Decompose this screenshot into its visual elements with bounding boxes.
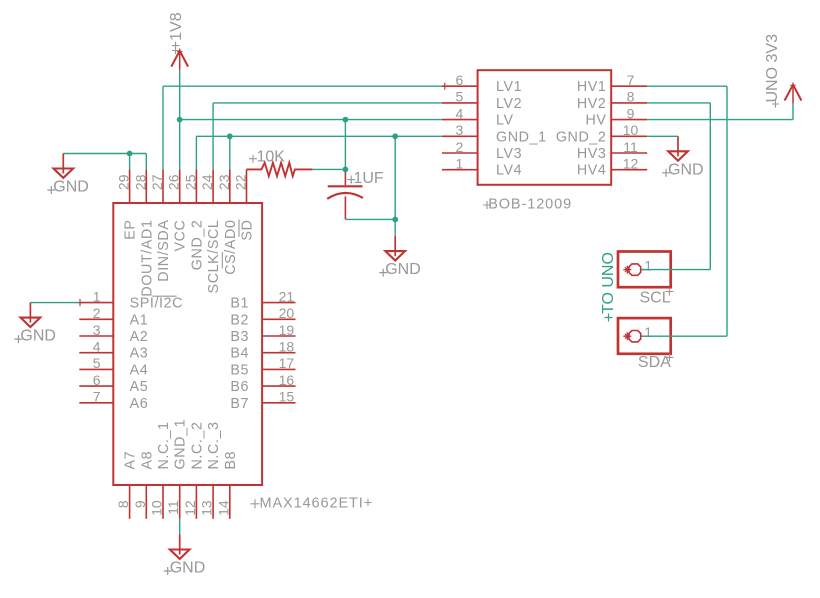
ground GND bob [662,136,704,178]
svg-text:1: 1 [456,156,464,172]
svg-text:SDA: SDA [638,354,671,371]
svg-text:4: 4 [93,339,101,355]
svg-text:GND: GND [53,179,89,196]
svg-text:GND: GND [20,328,56,345]
wire CS/AD0 vertical pin23 [229,136,231,169]
svg-text:11: 11 [623,139,638,155]
wire pin29 drop [129,154,131,170]
supply +1V8 [168,12,188,70]
svg-text:A5: A5 [130,379,149,395]
svg-text:8: 8 [115,500,131,508]
svg-text:UNO 3V3: UNO 3V3 [764,34,781,103]
U2 pin 1 LV4 [442,156,522,179]
svg-text:DOUT/AD1: DOUT/AD1 [139,220,155,297]
ground GND top-left [47,154,89,196]
svg-text:HV3: HV3 [577,146,607,162]
svg-text:11: 11 [165,500,181,515]
U1 pin 11 GND_1 [165,419,189,519]
svg-text:N.C._2: N.C._2 [189,421,205,469]
node junction pin29-gnd [127,151,133,157]
U1 pin 7 A6 [79,389,148,412]
svg-text:VCC: VCC [173,220,189,252]
U1 pin 5 A4 [79,355,148,378]
svg-text:B2: B2 [230,312,249,328]
svg-text:5: 5 [456,89,464,105]
svg-text:.1UF: .1UF [349,170,384,187]
svg-text:5: 5 [93,355,101,371]
svg-text:B1: B1 [230,296,249,312]
svg-text:19: 19 [279,322,295,338]
U2 pin 9 HV [585,105,647,128]
wire HV2 vertical to SCL [709,103,711,270]
svg-text:A1: A1 [130,312,149,328]
wire pullup vertical [344,120,346,170]
svg-text:20: 20 [279,305,295,321]
svg-text:10: 10 [623,122,639,138]
svg-text:SCLK/SCL: SCLK/SCL [206,220,222,294]
wire GND_2 vertical pin25 [195,136,197,169]
wire pin28 drop [145,154,147,170]
U1 pin 4 A3 [79,339,148,362]
ground GND cap [379,236,421,278]
wire SCLK/SCL vertical pin24 [212,103,214,169]
connector JP2 SDA [618,318,673,371]
node junction cap top [343,167,349,173]
wire UNO3V3 vertical [792,104,794,120]
svg-text:14: 14 [215,500,231,516]
svg-text:9: 9 [627,105,635,121]
svg-text:12: 12 [623,156,639,172]
svg-text:1: 1 [644,258,652,274]
wire 1V8 to LV [180,119,442,121]
svg-text:9: 9 [132,500,148,508]
U1 pin 8 A7 [115,451,139,519]
svg-text:6: 6 [93,372,101,388]
ground GND pin1 [14,303,56,345]
U2 origin cross [441,83,448,90]
U1 value label MAX14662ETI+ [251,495,374,511]
U2 pin 6 LV1 [442,72,522,95]
U1 pin 15 B7 [230,389,295,412]
node junction cap gnd [392,217,398,223]
svg-text:A8: A8 [139,451,155,470]
svg-text:B5: B5 [230,362,249,378]
U1 pin 1 SPI/I2C [79,288,183,311]
wire DIN/SDA to LV1 [163,85,442,87]
svg-text:7: 7 [93,389,101,405]
svg-text:3: 3 [456,122,464,138]
svg-text:29: 29 [116,174,132,190]
svg-text:6: 6 [456,72,464,88]
svg-text:21: 21 [279,288,295,304]
svg-text:SPI/I2C: SPI/I2C [130,296,183,312]
U1 pin 29 EP [116,169,139,239]
svg-text:HV2: HV2 [577,96,607,112]
svg-text:A3: A3 [130,346,149,362]
wire SCL pad horizontal [641,269,710,271]
U2 pin 8 HV2 [577,89,647,112]
svg-text:HV: HV [585,113,606,129]
ground GND bottom [164,535,206,577]
svg-text:MAX14662ETI+: MAX14662ETI+ [260,495,374,511]
svg-text:15: 15 [279,389,295,405]
U2 pin 11 HV3 [577,139,647,162]
supply UNO 3V3 [764,34,801,108]
svg-text:A6: A6 [130,396,149,412]
U2 value label BOB-12009 [483,197,572,213]
U1 pin 2 A1 [79,305,148,328]
U1 pin 10 N.C._1 [149,421,173,518]
svg-text:24: 24 [199,174,215,190]
U1 pin 16 B6 [230,372,295,395]
U2 pin 10 GND_2 [556,122,647,145]
svg-text:B8: B8 [223,451,239,470]
svg-text:27: 27 [149,174,165,190]
svg-text:GND: GND [385,261,421,278]
svg-text:17: 17 [279,355,295,371]
svg-text:LV1: LV1 [496,79,522,95]
svg-text:18: 18 [279,339,295,355]
U1 pin 6 A5 [79,372,148,395]
svg-text:B3: B3 [230,329,249,345]
U1 pin 26 VCC [166,169,189,251]
svg-text:10: 10 [149,500,165,516]
wire gnd branch vertical [394,136,396,236]
U1 pin 27 DIN/SDA [149,169,172,281]
svg-text:LV2: LV2 [496,96,522,112]
wire GND row to GND_1 [196,135,442,137]
level-shifter U2 BOB-12009 body [478,70,612,185]
svg-text:GND_2: GND_2 [189,220,205,271]
svg-text:N.C._3: N.C._3 [206,421,222,469]
svg-text:12: 12 [182,500,198,516]
svg-text:HV4: HV4 [577,163,607,179]
wire 1V8 vertical pin26 [179,70,181,169]
net label TO UNO [600,252,617,321]
svg-text:25: 25 [182,174,198,190]
svg-text:2: 2 [456,139,464,155]
wire cap bottom horizontal [345,218,395,220]
wire pin1 to GND [30,302,79,304]
wire HV to UNO3V3 [647,119,793,121]
svg-text:BOB-12009: BOB-12009 [488,197,572,213]
U1 pin 28 DOUT/AD1 [132,169,155,296]
svg-text:GND_1: GND_1 [496,129,547,145]
U1 origin cross [76,299,83,306]
node junction gnd-cap branch [392,133,398,139]
wire HV1 horizontal [647,85,727,87]
connector JP1 SCL [618,252,673,307]
U2 pin 12 HV4 [577,156,647,179]
U1 pin 24 SCLK/SCL [199,169,222,293]
svg-text:7: 7 [627,72,635,88]
svg-text:N.C._1: N.C._1 [156,421,172,469]
svg-text:HV1: HV1 [577,79,607,95]
svg-text:13: 13 [199,500,215,516]
U1 pin 25 GND_2 [182,169,205,270]
node junction 1V8 pullup [343,117,349,123]
svg-text:EP: EP [123,220,139,240]
svg-text:10K: 10K [257,149,286,166]
svg-text:CS/AD0: CS/AD0 [223,219,239,274]
svg-text:TO UNO: TO UNO [600,252,617,314]
svg-text:GND: GND [170,560,206,577]
U1 pin 13 N.C._3 [199,421,223,518]
U1 pin 20 B2 [230,305,295,328]
node junction CS/AD0 gnd [227,133,233,139]
svg-text:22: 22 [233,174,249,190]
svg-text:GND_2: GND_2 [556,129,607,145]
U2 pin 5 LV2 [442,89,522,112]
svg-text:8: 8 [627,89,635,105]
svg-text:16: 16 [279,372,295,388]
svg-text:SCL: SCL [640,289,671,306]
wire DIN/SDA vertical pin27 [162,86,164,169]
svg-text:B6: B6 [230,379,249,395]
U1 pin 23 CS/AD0 [216,169,239,274]
wire pin11 to GND [179,519,181,535]
U1 pin 12 N.C._2 [182,421,206,518]
svg-text:GND: GND [668,161,704,178]
U1 pin 21 B1 [230,288,295,311]
svg-text:A7: A7 [123,451,139,470]
svg-text:3: 3 [93,322,101,338]
U1 pin 22 SD [233,169,256,240]
svg-text:4: 4 [456,105,464,121]
wire GND_2 right [647,135,678,137]
svg-text:28: 28 [132,174,148,190]
U2 pin 7 HV1 [577,72,647,95]
node junction 1V8 pin26 [177,117,183,123]
svg-text:2: 2 [93,305,101,321]
IC U1 MAX14662ETI+ body [113,203,262,485]
svg-text:1: 1 [644,324,652,340]
U2 pin 2 LV3 [442,139,522,162]
U1 pin 3 A2 [79,322,148,345]
U1 pin 17 B5 [230,355,295,378]
wire GND to pins 29 28 [63,153,146,155]
svg-text:GND_1: GND_1 [173,419,189,470]
U2 pin 3 GND_1 [442,122,547,145]
wire resistor to cap node [312,168,345,170]
wire HV2 horizontal [647,102,710,104]
capacitor C1 .1UF [327,169,384,219]
svg-text:+1V8: +1V8 [168,12,185,50]
U1 pin 9 A8 [132,451,156,519]
U1 pin 18 B4 [230,339,295,362]
svg-text:SD: SD [240,220,256,241]
wire SDA pad horizontal [641,335,727,337]
wire HV1 vertical to SDA [726,86,728,336]
svg-text:A4: A4 [130,362,149,378]
svg-text:B7: B7 [230,396,249,412]
svg-text:26: 26 [166,174,182,190]
svg-text:LV4: LV4 [496,163,522,179]
resistor R1 10K [247,149,313,177]
svg-text:B4: B4 [230,346,249,362]
wire SCLK/SCL to LV2 [213,102,442,104]
svg-text:DIN/SDA: DIN/SDA [156,220,172,282]
svg-text:23: 23 [216,174,232,190]
svg-text:A2: A2 [130,329,149,345]
U2 pin 4 LV [442,105,514,128]
U1 pin 14 B8 [215,451,239,519]
svg-text:1: 1 [93,288,101,304]
U1 pin 19 B3 [230,322,295,345]
svg-text:LV: LV [496,113,514,129]
svg-text:LV3: LV3 [496,146,522,162]
